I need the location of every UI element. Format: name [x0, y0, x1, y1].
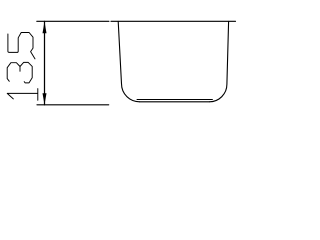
basin rim: [111, 20, 236, 22]
basin bottom upper edge: [137, 99, 212, 101]
basin bottom lower line: [140, 101, 210, 103]
arrowhead bottom: [43, 93, 47, 105]
arrowhead top: [43, 21, 47, 33]
dimension text 135 digit 5 (rotated): [8, 33, 35, 59]
dimension text 135 digit 1 (rotated): [7, 89, 38, 101]
dimension text 135 digit 3 (rotated): [7, 62, 32, 83]
basin right corner and wall: [209, 21, 228, 101]
dimension line: [44, 21, 46, 105]
basin left wall and corner: [118, 21, 139, 101]
extension line bottom: [37, 104, 109, 106]
extension line top: [37, 20, 109, 22]
